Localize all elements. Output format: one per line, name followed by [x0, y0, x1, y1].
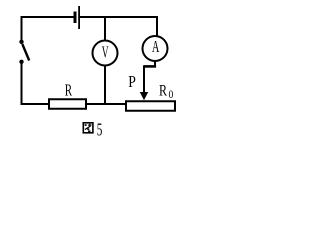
svg-text:R: R [159, 83, 167, 100]
svg-text:5: 5 [97, 120, 103, 140]
svg-text:R: R [65, 81, 72, 100]
svg-text:V: V [102, 43, 109, 62]
svg-text:A: A [152, 37, 160, 56]
svg-text:P: P [128, 72, 136, 91]
svg-text:0: 0 [169, 87, 174, 101]
